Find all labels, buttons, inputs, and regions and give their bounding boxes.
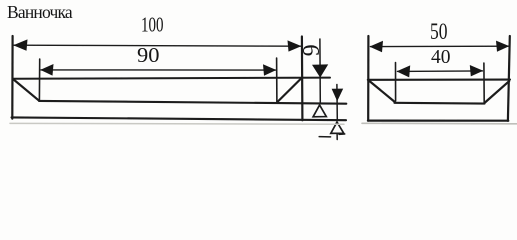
dimension 50 left arrowhead [370,41,384,52]
thickness upper arrowhead (filled, down) [332,89,344,102]
dimension 90 right arrowhead [263,64,276,76]
dimension 6 lower arrowhead (open, up) [313,105,326,117]
left view: right wall / 100 right extension line [301,37,304,121]
thickness stack stem lower [336,133,338,139]
leader dash left [319,136,330,138]
thickness stack stem upper [336,85,338,121]
leader dash right [339,133,345,135]
dimension 50 line [371,45,509,47]
dimension 6 upper arrowhead (filled, down) [312,64,328,77]
right view: left inner diagonal [369,81,394,102]
left view: top edge [13,78,331,79]
svg-text:100: 100 [141,13,164,37]
dimension 40 left arrowhead [397,65,411,77]
dimension 6 vertical line [319,39,321,103]
dimension 50 right arrowhead [496,41,509,52]
dimension 90 right extension line [276,58,278,102]
scan shadow under left view bottom [10,122,344,125]
svg-text:40: 40 [431,46,451,68]
left view: bottom edge with extension [12,117,347,120]
scan shadow under right view bottom [362,122,517,125]
dimension 40 line [398,70,483,73]
svg-text:90: 90 [137,43,160,67]
left view: inner bottom edge with extension [39,101,346,104]
right view: inner bottom edge [394,102,484,105]
svg-text:50: 50 [430,19,448,44]
thickness lower arrowhead (open, up) [331,122,344,133]
dimension 40 left extension line [395,63,397,102]
right view: right inner diagonal [484,81,509,103]
dimension 90 left arrowhead [40,64,53,76]
dimension 100 left arrowhead [13,39,27,50]
right view: bottom edge [368,119,508,121]
right view: right wall / 50 right extension line [508,36,510,121]
dimension 100 line [14,45,301,46]
svg-text:6: 6 [297,44,323,56]
dimension 40 right extension line [483,63,485,103]
dimension 40 right arrowhead [470,65,483,76]
dimension 90 left extension line [38,59,40,100]
dimension 100 right arrowhead [288,40,302,51]
right view: top edge [368,79,510,81]
left view: left inner diagonal [13,79,39,101]
left view: right inner diagonal [277,78,301,102]
dimension 90 line [41,69,276,71]
left view: left wall / 100 left extension line [11,36,14,119]
right view: left wall / 50 left extension line [367,36,369,121]
svg-text:Ванночка: Ванночка [7,2,73,22]
